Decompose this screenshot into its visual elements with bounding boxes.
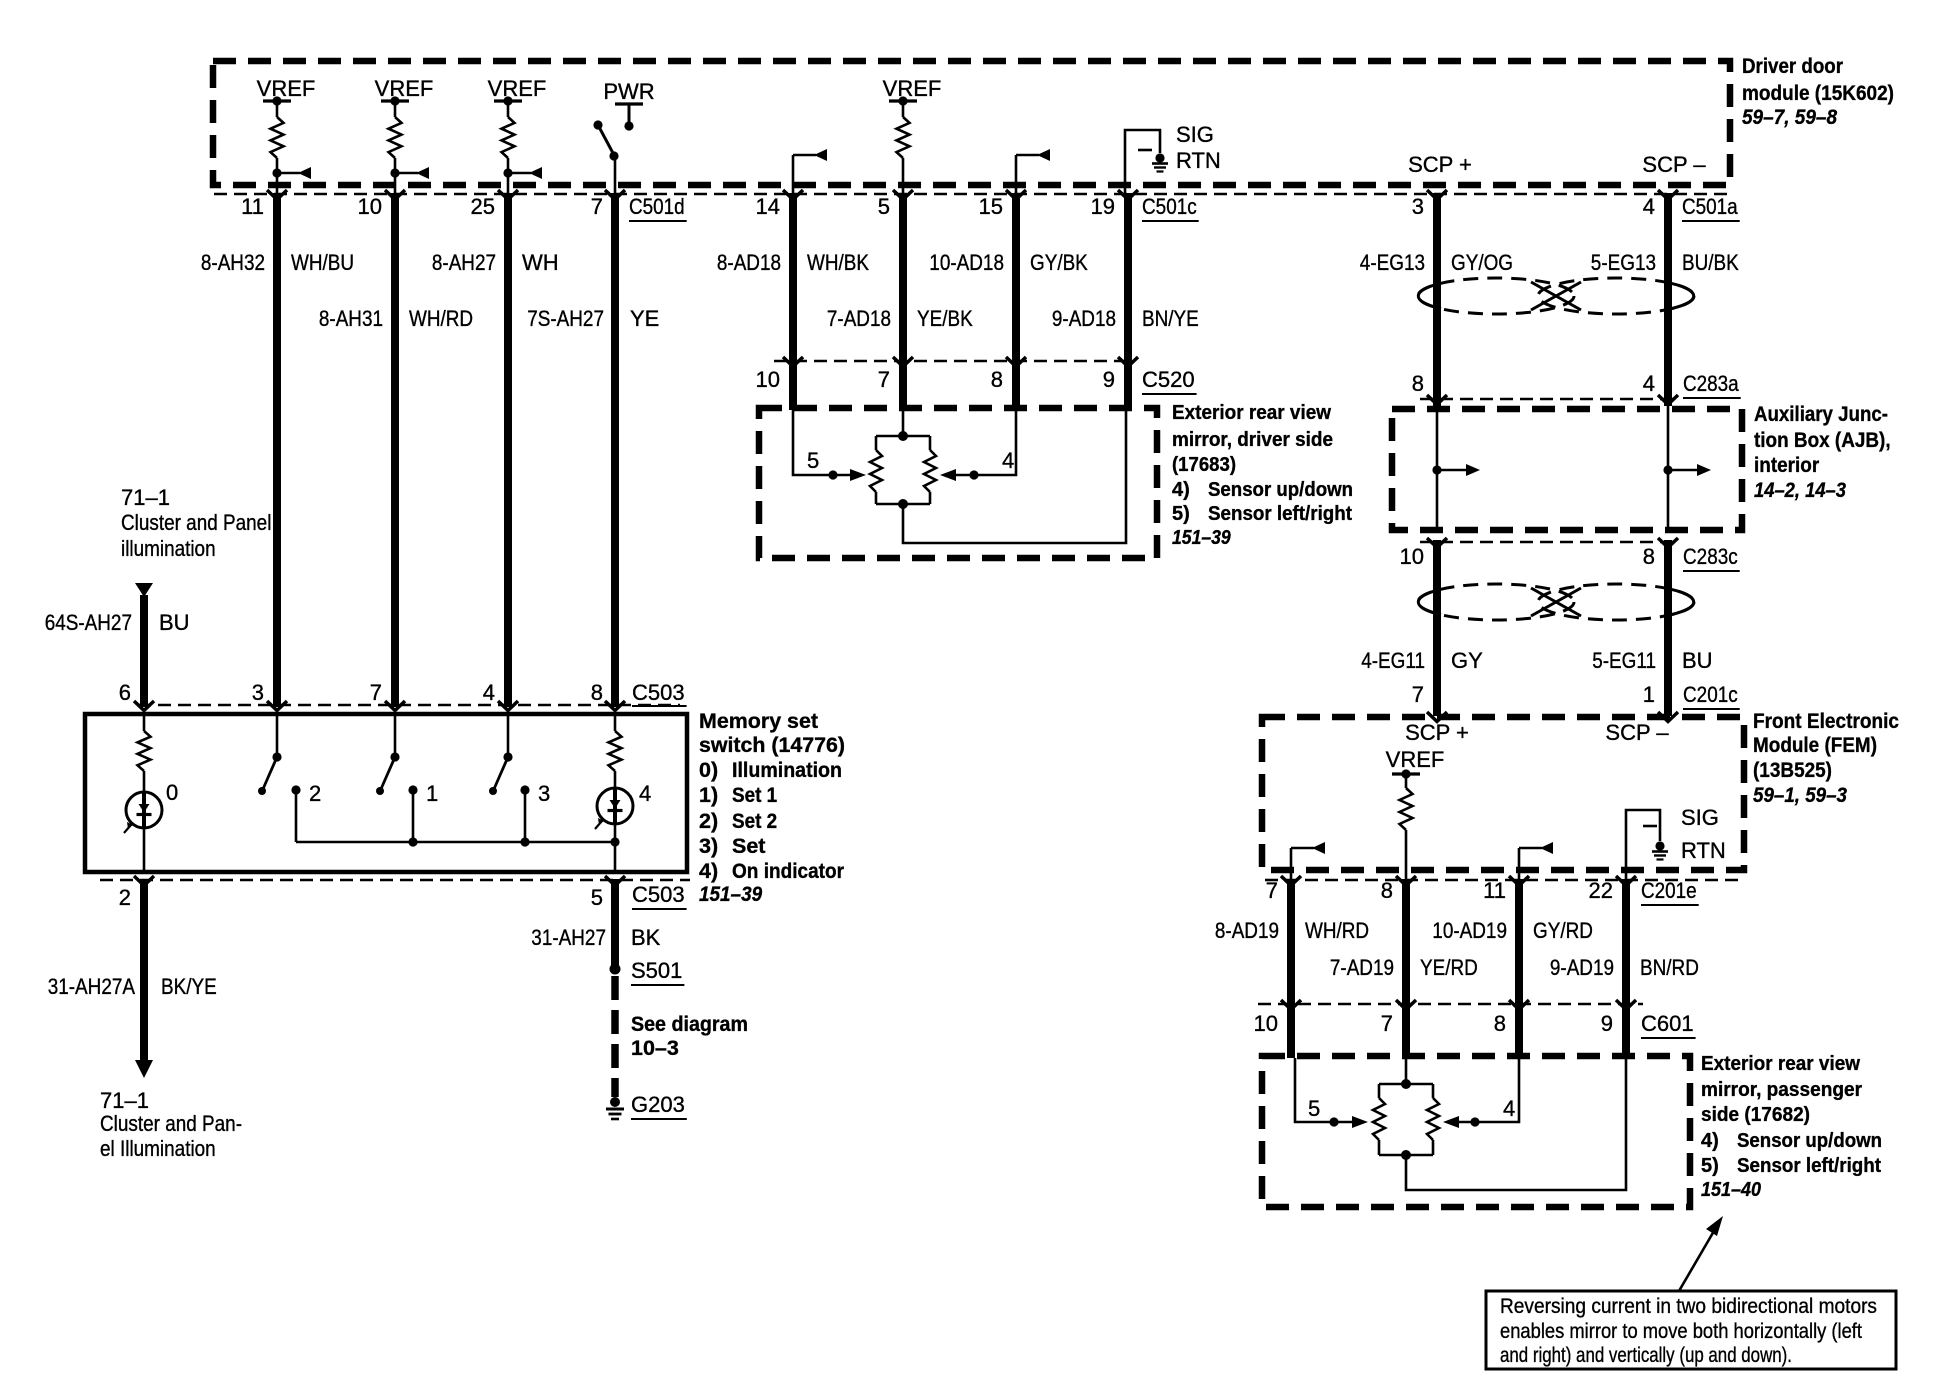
svg-text:8-AH31: 8-AH31 xyxy=(319,306,383,331)
svg-text:10: 10 xyxy=(756,367,780,392)
svg-text:WH/BK: WH/BK xyxy=(807,250,869,275)
pin 10 C283c xyxy=(1400,544,1424,569)
svg-text:1): 1) xyxy=(699,783,718,807)
svg-text:10-AD18: 10-AD18 xyxy=(929,250,1004,275)
svg-text:8: 8 xyxy=(1381,878,1393,903)
svg-text:PWR: PWR xyxy=(603,79,654,104)
switch set2 (pin 3) xyxy=(258,716,301,842)
svg-text:C201c: C201c xyxy=(1683,682,1738,707)
connector line C283c xyxy=(1420,541,1680,544)
VREF terminal 1 text xyxy=(257,76,316,101)
resistor illumination (memory sw pin 6) xyxy=(138,716,151,793)
pin 2 C503 xyxy=(119,885,131,910)
pin 5 C501c xyxy=(878,194,890,219)
svg-text:SIG: SIG xyxy=(1681,805,1719,830)
svg-text:5-EG11: 5-EG11 xyxy=(1592,648,1656,673)
connector line C501d/C501c/C501a xyxy=(214,193,1731,196)
svg-text:C503: C503 xyxy=(632,680,685,705)
label WH/BU xyxy=(291,250,354,275)
svg-text:25: 25 xyxy=(471,194,495,219)
svg-text:VREF: VREF xyxy=(1386,747,1445,772)
label YE/RD xyxy=(1420,955,1478,980)
chevrons at C601 xyxy=(1281,1000,1636,1010)
wire 7-AD19 YE/RD (FEM to C601) xyxy=(1402,879,1410,1058)
svg-text:9: 9 xyxy=(1103,367,1115,392)
label 5 (passenger mirror) xyxy=(1308,1096,1320,1121)
svg-text:1: 1 xyxy=(426,781,438,806)
svg-text:Exterior rear view: Exterior rear view xyxy=(1172,402,1331,424)
svg-text:BU/BK: BU/BK xyxy=(1682,250,1739,275)
label 8-AH32 xyxy=(201,250,265,275)
pin 7 C601 xyxy=(1381,1011,1393,1036)
svg-text:See diagram: See diagram xyxy=(631,1012,748,1036)
svg-text:4: 4 xyxy=(1643,194,1655,219)
label BU/BK xyxy=(1682,250,1739,275)
svg-text:BU: BU xyxy=(159,610,190,635)
svg-text:SCP –: SCP – xyxy=(1605,720,1669,745)
svg-text:YE/RD: YE/RD xyxy=(1420,955,1478,980)
pin 4 C503 xyxy=(483,680,495,705)
label WH/RD xyxy=(1305,918,1369,943)
SCP- label (door module) xyxy=(1642,152,1706,177)
wire 8-AD18 WH/BK (pin 14 to C520) xyxy=(789,193,797,410)
input arrow pin 15 xyxy=(1016,149,1050,196)
label 4 (driver mirror) xyxy=(1002,448,1014,473)
label 7S-AH27 xyxy=(527,306,604,331)
svg-text:Set 2: Set 2 xyxy=(732,809,777,833)
connector name C501c xyxy=(1142,194,1199,221)
svg-text:2): 2) xyxy=(699,809,718,833)
svg-text:4: 4 xyxy=(1503,1096,1515,1121)
svg-text:151–39: 151–39 xyxy=(699,882,762,906)
chevrons at C283c xyxy=(1427,538,1678,548)
SIG RTN labels (FEM) xyxy=(1681,805,1726,863)
svg-text:mirror, passenger: mirror, passenger xyxy=(1701,1079,1862,1101)
svg-text:VREF: VREF xyxy=(883,76,942,101)
svg-text:GY/OG: GY/OG xyxy=(1451,250,1513,275)
label 4-EG11 xyxy=(1361,648,1425,673)
svg-text:WH: WH xyxy=(522,250,559,275)
pin 8 C503 xyxy=(591,680,603,705)
switch common bus wire xyxy=(296,837,620,846)
svg-text:YE/BK: YE/BK xyxy=(917,306,973,331)
svg-text:15: 15 xyxy=(979,194,1003,219)
label 5-EG11 xyxy=(1592,648,1656,673)
chevrons at C501 connector xyxy=(267,190,1678,200)
svg-text:10: 10 xyxy=(358,194,382,219)
motor bridge bottom node (driver) xyxy=(876,499,930,509)
svg-text:7: 7 xyxy=(370,680,382,705)
svg-text:4: 4 xyxy=(1002,448,1014,473)
svg-text:14–2, 14–3: 14–2, 14–3 xyxy=(1754,478,1846,502)
svg-text:side (17682): side (17682) xyxy=(1701,1104,1810,1126)
svg-text:RTN: RTN xyxy=(1176,148,1221,173)
svg-text:5): 5) xyxy=(1172,503,1190,525)
svg-text:8: 8 xyxy=(1494,1011,1506,1036)
resistor VREF pin 25 xyxy=(494,96,542,196)
label YE xyxy=(630,306,659,331)
wire 7-AD18 YE/BK (pin 5 to C520) xyxy=(899,193,907,410)
AJB arrow left xyxy=(1432,464,1480,476)
switch set (pin 4) xyxy=(489,716,530,842)
svg-text:3: 3 xyxy=(1412,194,1424,219)
svg-text:64S-AH27: 64S-AH27 xyxy=(45,610,132,635)
svg-text:4: 4 xyxy=(483,680,495,705)
note box xyxy=(1486,1291,1896,1369)
VREF terminal 2 text xyxy=(375,76,434,101)
resistor VREF pin 10 xyxy=(381,96,429,196)
motor bridge bottom node (passenger) xyxy=(1379,1150,1433,1160)
wire pin10 to motor wiper left (driver) xyxy=(793,410,850,480)
SIG RTN labels xyxy=(1176,122,1221,173)
entry arrow from 71-1 xyxy=(135,583,153,597)
connector line C520 xyxy=(774,360,1135,363)
lamp 4 on indicator xyxy=(595,788,633,872)
svg-text:C283c: C283c xyxy=(1683,544,1738,569)
motor bridge top node (driver) xyxy=(876,431,930,441)
svg-text:8: 8 xyxy=(991,367,1003,392)
svg-text:7: 7 xyxy=(591,194,603,219)
svg-text:switch (14776): switch (14776) xyxy=(699,733,845,757)
pin 7 C501d xyxy=(591,194,603,219)
label 0 (illumination lamp) xyxy=(166,780,178,805)
svg-text:WH/RD: WH/RD xyxy=(1305,918,1369,943)
label YE/BK xyxy=(917,306,973,331)
svg-text:31-AH27A: 31-AH27A xyxy=(48,974,136,999)
wire 5-EG11 BU (C283c to FEM) xyxy=(1664,540,1672,716)
splice name S501 xyxy=(631,958,684,985)
svg-text:el Illumination: el Illumination xyxy=(100,1136,216,1161)
label 31-AH27A xyxy=(48,974,136,999)
svg-text:Cluster and Panel: Cluster and Panel xyxy=(121,510,271,535)
pin 11 C201e xyxy=(1483,878,1506,903)
label 10-AD19 xyxy=(1432,918,1507,943)
VREF terminal 3 text xyxy=(488,76,547,101)
svg-text:59–1, 59–3: 59–1, 59–3 xyxy=(1753,783,1847,807)
pin 10 C501d xyxy=(358,194,382,219)
label 4 (passenger mirror) xyxy=(1503,1096,1515,1121)
label BU xyxy=(1682,648,1713,673)
AJB label xyxy=(1754,402,1891,502)
see diagram note xyxy=(631,1012,748,1060)
label 7-AD18 xyxy=(827,306,891,331)
svg-text:6: 6 xyxy=(119,680,131,705)
FEM label xyxy=(1753,709,1899,807)
svg-text:5-EG13: 5-EG13 xyxy=(1591,250,1656,275)
svg-text:4: 4 xyxy=(1643,371,1655,396)
svg-text:22: 22 xyxy=(1589,878,1613,903)
input arrow FEM pin 7 xyxy=(1291,842,1325,884)
label 64S-AH27 xyxy=(45,610,132,635)
svg-text:9: 9 xyxy=(1601,1011,1613,1036)
label WH xyxy=(522,250,559,275)
svg-text:mirror, driver side: mirror, driver side xyxy=(1172,429,1333,451)
AJB pass-through wire right xyxy=(1667,406,1670,533)
SCP+ label (door module) xyxy=(1408,152,1472,177)
svg-text:0: 0 xyxy=(166,780,178,805)
svg-text:Sensor up/down: Sensor up/down xyxy=(1208,479,1353,501)
label 1 (contact) xyxy=(426,781,438,806)
svg-text:7: 7 xyxy=(1381,1011,1393,1036)
connector name C201e xyxy=(1641,878,1699,905)
svg-text:31-AH27: 31-AH27 xyxy=(531,925,606,950)
svg-text:BN/RD: BN/RD xyxy=(1640,955,1699,980)
PWR terminal text xyxy=(603,79,654,104)
label 3 (contact) xyxy=(538,781,550,806)
VREF label (FEM) xyxy=(1386,747,1445,772)
connector line C503 top xyxy=(138,704,680,707)
svg-text:4): 4) xyxy=(699,859,718,883)
svg-text:7: 7 xyxy=(878,367,890,392)
wire 64S-AH27 BU (to switch pin 6) xyxy=(140,595,148,707)
label 5 (driver mirror) xyxy=(807,448,819,473)
svg-text:BK: BK xyxy=(631,925,661,950)
label 9-AD18 xyxy=(1052,306,1116,331)
svg-text:3: 3 xyxy=(538,781,550,806)
auxiliary junction box dashed box xyxy=(1392,409,1742,530)
label GY/OG xyxy=(1451,250,1513,275)
label 4-EG13 xyxy=(1360,250,1425,275)
wire 4-EG13 GY/OG (SCP+ to AJB) xyxy=(1433,193,1441,406)
svg-text:8-AD19: 8-AD19 xyxy=(1215,918,1279,943)
pin 8 C201e xyxy=(1381,878,1393,903)
svg-text:SCP +: SCP + xyxy=(1405,720,1469,745)
SCP+ label (FEM) xyxy=(1405,720,1469,745)
motor resistor right (passenger) xyxy=(1427,1084,1439,1155)
svg-text:Driver door: Driver door xyxy=(1742,54,1844,78)
memory set switch box xyxy=(85,714,687,872)
pin 9 C520 xyxy=(1103,367,1115,392)
svg-text:Memory set: Memory set xyxy=(699,709,818,733)
label GY xyxy=(1451,648,1483,673)
svg-text:5: 5 xyxy=(878,194,890,219)
svg-text:Set: Set xyxy=(732,834,765,858)
label 7-AD19 xyxy=(1330,955,1394,980)
svg-text:8-AD18: 8-AD18 xyxy=(717,250,781,275)
label GY/RD xyxy=(1533,918,1593,943)
pin 1 C201c xyxy=(1643,682,1655,707)
svg-text:BK/YE: BK/YE xyxy=(161,974,217,999)
wire pin8 to motor wiper right (passenger) xyxy=(1459,1058,1519,1127)
svg-text:7-AD19: 7-AD19 xyxy=(1330,955,1394,980)
svg-text:8: 8 xyxy=(591,680,603,705)
wire motor bottom to pin 9 (passenger) xyxy=(1406,1058,1626,1190)
svg-text:GY/RD: GY/RD xyxy=(1533,918,1593,943)
connector name C520 xyxy=(1142,367,1197,394)
svg-text:0): 0) xyxy=(699,758,718,782)
label BK xyxy=(631,925,661,950)
SIG RTN ground pin 19 xyxy=(1125,130,1168,196)
pin 15 C501c xyxy=(979,194,1003,219)
connector line C283a xyxy=(1420,398,1680,401)
ground name G203 xyxy=(631,1092,687,1119)
splice S501 xyxy=(610,964,621,975)
svg-text:10-AD19: 10-AD19 xyxy=(1432,918,1507,943)
svg-text:enables mirror to move both ho: enables mirror to move both horizontally… xyxy=(1500,1319,1862,1343)
pin 10 C520 xyxy=(756,367,780,392)
motor resistor left (driver) xyxy=(870,436,882,504)
svg-text:YE: YE xyxy=(630,306,659,331)
exterior mirror driver side dashed box xyxy=(759,408,1157,558)
pin 6 C503 xyxy=(119,680,131,705)
svg-text:Sensor left/right: Sensor left/right xyxy=(1737,1155,1881,1177)
pin 8 C283c xyxy=(1643,544,1655,569)
SIG RTN ground FEM pin 22 xyxy=(1626,810,1668,884)
svg-text:10: 10 xyxy=(1400,544,1424,569)
svg-text:5: 5 xyxy=(807,448,819,473)
wire pin7 to motor top node (driver) xyxy=(902,410,905,436)
svg-text:5: 5 xyxy=(591,885,603,910)
svg-text:151–40: 151–40 xyxy=(1701,1179,1761,1201)
svg-text:5: 5 xyxy=(1308,1096,1320,1121)
connector name C503 bottom xyxy=(632,882,687,909)
svg-text:11: 11 xyxy=(1483,878,1506,903)
svg-text:S501: S501 xyxy=(631,958,682,983)
AJB pass-through wire left xyxy=(1436,406,1439,533)
svg-text:2: 2 xyxy=(309,781,321,806)
svg-text:Exterior rear view: Exterior rear view xyxy=(1701,1053,1860,1075)
svg-text:9-AD18: 9-AD18 xyxy=(1052,306,1116,331)
pin 9 C601 xyxy=(1601,1011,1613,1036)
svg-text:BN/YE: BN/YE xyxy=(1142,306,1199,331)
chevrons at C201c/FEM top xyxy=(1427,712,1678,722)
svg-text:C501d: C501d xyxy=(629,194,685,219)
label BN/RD xyxy=(1640,955,1699,980)
label 2 (contact) xyxy=(309,781,321,806)
svg-text:Sensor left/right: Sensor left/right xyxy=(1208,503,1352,525)
wire pin10 to motor wiper left (passenger) xyxy=(1295,1058,1352,1127)
pin 19 C501c xyxy=(1091,194,1115,219)
svg-text:8: 8 xyxy=(1643,544,1655,569)
svg-text:Reversing current in two bidir: Reversing current in two bidirectional m… xyxy=(1500,1294,1877,1318)
connector name C601 xyxy=(1641,1011,1696,1038)
svg-text:10: 10 xyxy=(1254,1011,1278,1036)
input arrow FEM pin 11 xyxy=(1519,842,1553,884)
exit arrow to 71-1 xyxy=(135,1060,153,1078)
wiper arrow left (passenger) xyxy=(1352,1116,1368,1128)
pin 4 C283a xyxy=(1643,371,1655,396)
svg-text:(17683): (17683) xyxy=(1172,454,1236,476)
label BN/YE xyxy=(1142,306,1199,331)
connector name C283a xyxy=(1683,371,1741,398)
svg-text:GY: GY xyxy=(1451,648,1483,673)
connector name C201c xyxy=(1683,682,1740,709)
svg-text:SCP –: SCP – xyxy=(1642,152,1706,177)
svg-text:C520: C520 xyxy=(1142,367,1195,392)
switch set1 (pin 7) xyxy=(376,716,418,842)
svg-text:19: 19 xyxy=(1091,194,1115,219)
label 5-EG13 xyxy=(1591,250,1656,275)
svg-text:7S-AH27: 7S-AH27 xyxy=(527,306,604,331)
svg-text:WH/RD: WH/RD xyxy=(409,306,473,331)
svg-text:71–1: 71–1 xyxy=(121,485,170,510)
pin 11 C501d xyxy=(241,194,264,219)
AJB arrow right xyxy=(1663,464,1711,476)
exterior mirror passenger side dashed box xyxy=(1262,1056,1690,1207)
label 4 (on indicator lamp) xyxy=(639,781,651,806)
label BK/YE xyxy=(161,974,217,999)
svg-text:2: 2 xyxy=(119,885,131,910)
driver door module label xyxy=(1742,54,1894,129)
svg-text:C201e: C201e xyxy=(1641,878,1697,903)
resistor VREF pin 5 xyxy=(889,96,917,196)
svg-text:Set 1: Set 1 xyxy=(732,783,777,807)
wiper arrow left (driver) xyxy=(850,469,866,481)
svg-text:module (15K602): module (15K602) xyxy=(1742,81,1894,105)
svg-text:WH/BU: WH/BU xyxy=(291,250,354,275)
svg-text:59–7, 59–8: 59–7, 59–8 xyxy=(1742,105,1837,129)
svg-text:C601: C601 xyxy=(1641,1011,1694,1036)
pin 4 C501a xyxy=(1643,194,1655,219)
connector name C503 top xyxy=(632,680,687,706)
SCP- label (FEM) xyxy=(1605,720,1669,745)
svg-text:interior: interior xyxy=(1754,453,1820,477)
pin 3 C501a xyxy=(1412,194,1424,219)
chevrons at C520 xyxy=(783,357,1138,367)
driver door module (15K602) dashed box xyxy=(213,61,1730,185)
chevrons at C201e xyxy=(1281,876,1636,886)
twisted pair symbol (EG13) xyxy=(1418,278,1694,314)
wire 9-AD18 BN/YE (pin 19 to C520) xyxy=(1124,193,1132,410)
connector name C501a xyxy=(1682,194,1740,221)
memory switch label xyxy=(699,709,845,906)
label GY/BK xyxy=(1030,250,1088,275)
label 8-AD18 xyxy=(717,250,781,275)
connector line C201e xyxy=(1265,879,1744,882)
svg-text:71–1: 71–1 xyxy=(100,1088,149,1113)
wire 8-AH32 WH/BU (pin 11 to switch) xyxy=(273,193,281,707)
pin 8 C601 xyxy=(1494,1011,1506,1036)
lamp 0 illumination xyxy=(124,792,162,872)
resistor on-indicator (memory sw pin 8) xyxy=(609,716,622,789)
svg-text:3: 3 xyxy=(252,680,264,705)
svg-text:VREF: VREF xyxy=(375,76,434,101)
label 8-AD19 xyxy=(1215,918,1279,943)
svg-text:4-EG11: 4-EG11 xyxy=(1361,648,1425,673)
svg-text:tion Box (AJB),: tion Box (AJB), xyxy=(1754,428,1891,452)
pin 25 C501d xyxy=(471,194,495,219)
pin 7 C520 xyxy=(878,367,890,392)
svg-text:Auxiliary Junc-: Auxiliary Junc- xyxy=(1754,402,1888,426)
connector name C283c xyxy=(1683,544,1740,571)
pin 5 C503 xyxy=(591,885,603,910)
svg-text:1: 1 xyxy=(1643,682,1655,707)
svg-text:4): 4) xyxy=(1701,1130,1719,1152)
svg-text:5): 5) xyxy=(1701,1155,1719,1177)
svg-text:10–3: 10–3 xyxy=(631,1036,679,1060)
wire 9-AD19 BN/RD (FEM to C601) xyxy=(1622,879,1630,1058)
svg-text:VREF: VREF xyxy=(257,76,316,101)
svg-text:VREF: VREF xyxy=(488,76,547,101)
circuit 71-1 cluster illumination label (top) xyxy=(121,485,271,561)
label BU xyxy=(159,610,190,635)
svg-text:Illumination: Illumination xyxy=(732,758,842,782)
label 31-AH27 xyxy=(531,925,606,950)
svg-text:14: 14 xyxy=(756,194,780,219)
label 8-AH31 xyxy=(319,306,383,331)
label WH/RD xyxy=(409,306,473,331)
svg-text:SIG: SIG xyxy=(1176,122,1214,147)
ground G203 symbol xyxy=(606,1097,624,1119)
wiper arrow right (passenger) xyxy=(1443,1116,1459,1128)
wire 10-AD19 GY/RD (FEM to C601) xyxy=(1515,879,1523,1058)
chevrons at C503 bottom xyxy=(134,876,625,886)
wire 5-EG13 BU/BK (SCP- to AJB) xyxy=(1664,193,1672,406)
pin 7 C503 xyxy=(370,680,382,705)
svg-text:3): 3) xyxy=(699,834,718,858)
svg-text:C501c: C501c xyxy=(1142,194,1197,219)
svg-text:Cluster and Pan-: Cluster and Pan- xyxy=(100,1111,242,1136)
